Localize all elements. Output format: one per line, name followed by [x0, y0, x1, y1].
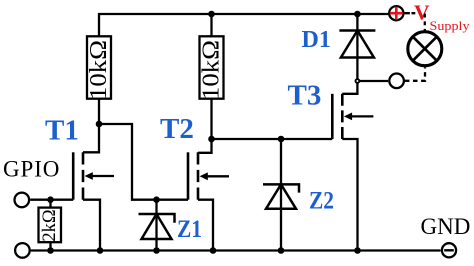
node small circle at D1 anode / T3 drain: [356, 79, 360, 83]
junction 2k resistor bottom on ground rail: [47, 247, 54, 254]
wire T1 drain node to T2 gate: [99, 124, 188, 200]
resistor R2: [200, 36, 224, 98]
svg-text:2kΩ: 2kΩ: [40, 209, 60, 241]
junction T2 drain node: [208, 136, 215, 143]
transistor Q T1: [73, 152, 114, 199]
svg-text:GND: GND: [421, 214, 471, 239]
wire Z2 lead: [280, 139, 282, 251]
wire Z1 lead: [155, 200, 157, 251]
wire R2 bottom to T2 drain: [198, 99, 212, 153]
terminal lamp output: [389, 74, 404, 89]
svg-text:Z1: Z1: [177, 216, 202, 243]
junction D1 cathode on supply rail: [354, 11, 361, 18]
wire dashed terminal to lamp: [405, 67, 425, 81]
junction T1 source on ground rail: [97, 247, 104, 254]
svg-text:GPIO: GPIO: [3, 157, 60, 182]
junction T1 drain node: [96, 121, 103, 128]
svg-text:Supply: Supply: [430, 18, 471, 33]
junction T3 source on ground rail: [354, 247, 361, 254]
resistor R3 2k: [39, 208, 62, 243]
svg-text:T2: T2: [160, 113, 194, 145]
junction Z1 anode on ground rail: [153, 247, 160, 254]
terminal + supply: [389, 6, 403, 20]
wire dashed + terminal to lamp via V supply: [403, 13, 424, 31]
wire 2k resistor leads: [49, 200, 51, 251]
diode zener Z2: [263, 184, 299, 208]
svg-text:V: V: [414, 1, 430, 25]
wire bottom ground rail: [31, 249, 441, 251]
junction Z2 cathode on T3 gate net: [278, 136, 285, 143]
terminal GPIO: [14, 193, 29, 208]
wire T2 source lead: [198, 200, 213, 251]
wire T2 drain node to T3 gate: [212, 138, 333, 140]
wire D1 vertical / T3 drain: [342, 14, 357, 94]
junction Z1 cathode on T2 gate net: [153, 196, 160, 203]
junction T2 source on ground rail: [210, 247, 217, 254]
transistor Q T3: [332, 94, 373, 139]
junction R2 top on supply rail: [208, 11, 215, 18]
diode zener Z1: [139, 214, 175, 239]
svg-text:10kΩ: 10kΩ: [86, 40, 112, 100]
lamp X1: [408, 32, 442, 66]
wire GPIO to T1 gate: [30, 199, 73, 201]
svg-text:D1: D1: [302, 27, 331, 53]
transistor Q T2: [188, 152, 229, 199]
svg-text:T3: T3: [288, 80, 322, 112]
svg-text:Z2: Z2: [309, 187, 334, 214]
wire T3 drain node to lamp terminal: [359, 80, 388, 82]
wire top rail with R1 top lead: [99, 14, 389, 36]
wire R1 bottom to T1 drain: [83, 99, 99, 153]
wire R2 top lead: [210, 14, 212, 36]
terminal bottom-left: [15, 243, 30, 258]
svg-text:10kΩ: 10kΩ: [199, 40, 225, 100]
diode D1: [339, 31, 375, 58]
wire T3 source lead: [342, 139, 357, 251]
svg-text:T1: T1: [45, 115, 79, 147]
resistor R1: [87, 36, 111, 98]
junction Z2 anode on ground rail: [278, 247, 285, 254]
junction 2k resistor top on GPIO net: [47, 196, 54, 203]
wire T1 source lead: [83, 200, 100, 251]
terminal GND: [442, 243, 456, 257]
